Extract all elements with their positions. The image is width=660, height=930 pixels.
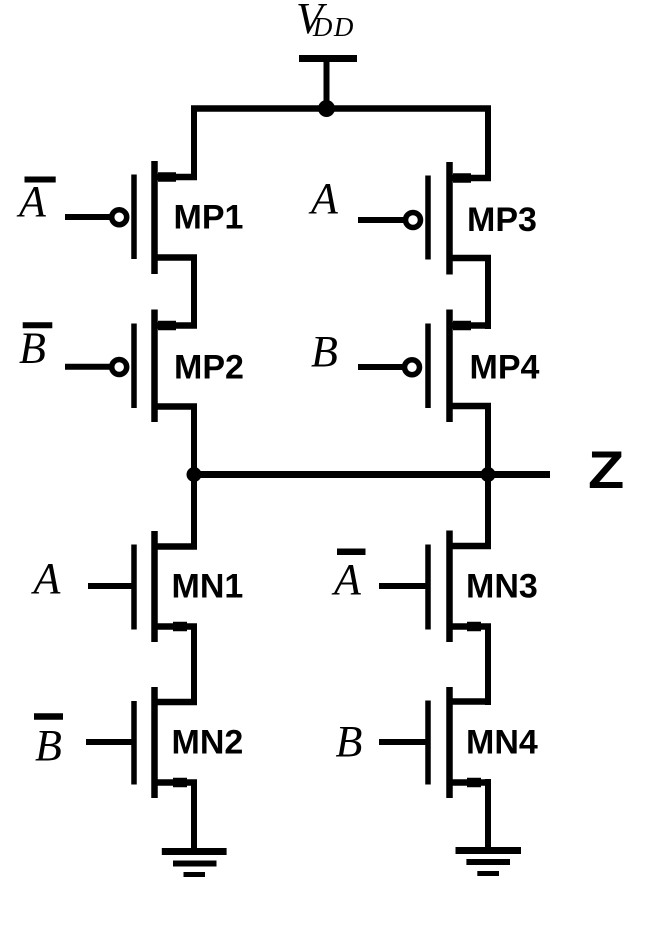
supply bar VDD	[299, 55, 357, 62]
transistor MN4	[428, 687, 491, 798]
svg-text:A: A	[308, 174, 339, 223]
wire gate MN2	[86, 739, 137, 745]
wire MP1 source to MP2 drain	[191, 255, 197, 329]
transistor MP3	[428, 162, 491, 275]
net label Z	[588, 440, 624, 499]
svg-text:MN2: MN2	[172, 724, 244, 762]
transistor MN3	[428, 531, 491, 643]
wire gate MP4	[358, 364, 403, 370]
gate bubble MP4	[405, 360, 420, 375]
wire MP2 source to node Z	[191, 404, 197, 479]
wire VDD stem	[324, 59, 330, 110]
svg-text:MP1: MP1	[174, 199, 244, 237]
input label A-bar (MP1)	[16, 177, 56, 226]
wire gate MP2	[65, 364, 110, 370]
wire MN2 source to ground	[191, 780, 197, 853]
svg-text:MP2: MP2	[174, 349, 244, 387]
ground (left)	[162, 852, 227, 875]
svg-text:MP3: MP3	[467, 201, 537, 239]
transistor MP2	[134, 310, 197, 423]
wire gate MN3	[379, 583, 431, 589]
svg-text:B: B	[311, 327, 338, 376]
input label A-bar (MN3)	[331, 552, 366, 604]
wire VDD rail	[191, 105, 491, 112]
transistor MN2	[134, 687, 197, 798]
svg-text:MN3: MN3	[466, 568, 538, 606]
input label B-bar (MP2)	[19, 324, 52, 373]
wire gate MN4	[379, 739, 431, 745]
junction dot Z left	[187, 467, 202, 482]
gate bubble MP1	[112, 210, 127, 225]
wire MN1 source to MN2 drain	[191, 624, 197, 706]
svg-text:MP4: MP4	[470, 349, 540, 387]
wire MP3 source to MP4 drain	[485, 255, 491, 329]
wire MP4 source to node Z	[485, 403, 491, 478]
ground (right)	[456, 851, 522, 874]
wire node Z to MN3 drain	[485, 471, 491, 549]
svg-text:B: B	[336, 717, 363, 766]
wire gate MP1	[65, 214, 110, 220]
svg-text:A: A	[31, 554, 62, 603]
svg-text:MN4: MN4	[466, 724, 538, 762]
wire gate MP3	[358, 217, 404, 223]
gate bubble MP3	[406, 213, 421, 228]
svg-text:B: B	[19, 324, 46, 373]
wire MN3 source to MN4 drain	[485, 624, 491, 706]
wire MN4 source to ground	[485, 779, 491, 851]
wire rail to MP3 drain	[485, 106, 491, 179]
input label B-bar (MN2)	[34, 717, 63, 771]
junction dot Z right	[481, 467, 496, 482]
transistor MP1	[134, 161, 197, 274]
wire gate MN1	[88, 583, 137, 589]
svg-text:Z: Z	[588, 440, 624, 499]
svg-text:MN1: MN1	[172, 568, 244, 606]
gate bubble MP2	[112, 360, 127, 375]
transistor MP4	[428, 310, 491, 423]
svg-text:A: A	[16, 177, 47, 226]
junction dot VDD rail	[318, 100, 335, 117]
wire node Z to MN1 drain	[191, 471, 197, 550]
svg-text:B: B	[35, 721, 62, 770]
wire rail to MP1 drain	[191, 106, 197, 178]
wire node Z rail	[191, 471, 550, 478]
svg-text:A: A	[331, 555, 362, 604]
transistor MN1	[134, 531, 197, 642]
